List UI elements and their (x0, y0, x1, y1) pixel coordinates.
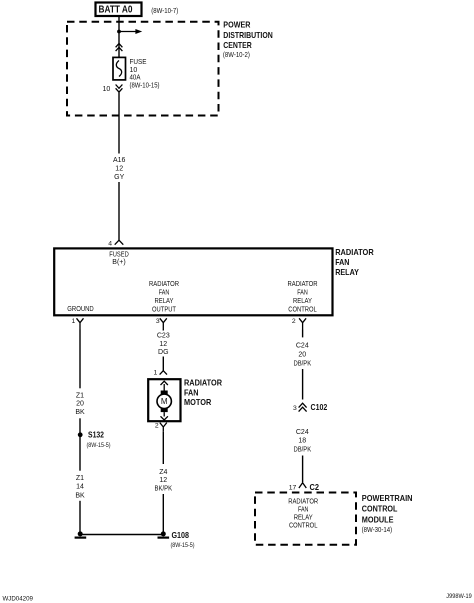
label RADIATOR FAN MOTOR (184, 378, 222, 407)
label RADIATOR FAN RELAY OUTPUT (149, 281, 179, 314)
svg-text:C24: C24 (296, 429, 309, 436)
svg-text:1: 1 (154, 370, 158, 377)
svg-text:Z1: Z1 (76, 392, 84, 399)
svg-text:DG: DG (158, 349, 169, 356)
svg-text:FAN: FAN (159, 289, 170, 296)
label C24 20 DB/PK (293, 343, 311, 368)
svg-text:BK: BK (75, 409, 85, 416)
motor M1 symbol (157, 381, 171, 420)
svg-text:(8W-10-7): (8W-10-7) (151, 8, 178, 15)
svg-text:CENTER: CENTER (223, 40, 252, 50)
svg-text:Z1: Z1 (76, 475, 84, 482)
wire motor to Z4 label (162, 431, 164, 464)
svg-text:FUSED: FUSED (109, 251, 129, 258)
wire ground branch upper (79, 330, 81, 389)
wire Z4 to ground G108 (162, 494, 164, 532)
svg-text:1: 1 (72, 318, 76, 325)
svg-text:BK: BK (75, 492, 85, 499)
label Z4 12 BK/PK (155, 469, 173, 493)
svg-text:RADIATOR: RADIATOR (288, 498, 318, 505)
label Z1 20 BK (75, 392, 85, 416)
label RADIATOR FAN RELAY (335, 247, 374, 277)
svg-text:2: 2 (292, 318, 296, 325)
powertrain control module dashed box (255, 493, 356, 545)
svg-text:FAN: FAN (298, 506, 309, 513)
svg-text:G108: G108 (172, 531, 190, 540)
connector chevrons out of PDC (116, 85, 123, 93)
svg-text:J998W-19: J998W-19 (446, 593, 472, 600)
svg-text:DISTRIBUTION: DISTRIBUTION (223, 30, 273, 40)
svg-text:12: 12 (159, 341, 167, 348)
svg-text:DB/PK: DB/PK (293, 361, 311, 368)
connector C2 pin 17 (289, 482, 319, 492)
arrow branch to other circuits (119, 29, 142, 34)
pin 2 motor connector (155, 423, 167, 432)
wire relay control to C24 label (302, 330, 304, 338)
ground symbol G108 (158, 531, 170, 538)
svg-text:M: M (161, 397, 168, 406)
svg-text:(8W-15-5): (8W-15-5) (87, 442, 111, 449)
wire A16 lower segment (118, 182, 120, 240)
wire C23 to motor (162, 357, 164, 371)
wire to ground G108 left (79, 501, 81, 532)
svg-text:2: 2 (155, 423, 159, 430)
svg-text:(8W-10-15): (8W-10-15) (130, 82, 160, 89)
svg-text:10: 10 (103, 86, 111, 93)
wire splice to Z1 14 label (79, 437, 81, 471)
wire C24 to PCM (302, 456, 304, 483)
svg-text:GROUND: GROUND (67, 306, 94, 313)
svg-text:3: 3 (156, 318, 160, 325)
svg-text:BK/PK: BK/PK (155, 485, 173, 492)
svg-text:RELAY: RELAY (294, 514, 313, 521)
svg-text:3: 3 (293, 405, 297, 412)
svg-text:POWERTRAIN: POWERTRAIN (362, 493, 413, 503)
svg-text:MODULE: MODULE (362, 515, 394, 525)
svg-text:10: 10 (130, 67, 138, 74)
svg-text:(8W-10-2): (8W-10-2) (223, 52, 250, 59)
label RADIATOR FAN RELAY CONTROL (288, 281, 318, 314)
battery feed box BATT A0 (96, 3, 142, 17)
pin 3 connector (156, 318, 167, 330)
radiator fan relay box (54, 248, 332, 315)
svg-text:RADIATOR: RADIATOR (288, 281, 318, 288)
svg-text:Z4: Z4 (159, 469, 167, 476)
connector chevrons into PDC (116, 44, 123, 52)
svg-text:GY: GY (114, 174, 124, 181)
wire relay output to C23 label (162, 330, 164, 331)
label C24 18 DB/PK (293, 429, 311, 453)
svg-text:BATT A0: BATT A0 (99, 5, 133, 16)
label G108 (8W-15-5) (171, 531, 195, 549)
svg-text:POWER: POWER (223, 20, 250, 30)
wire C24 to C102 (302, 369, 304, 400)
svg-text:CONTROL: CONTROL (288, 306, 317, 313)
label RADIATOR FAN RELAY CONTROL (PCM) (288, 498, 318, 529)
svg-text:DB/PK: DB/PK (293, 446, 311, 453)
svg-text:FAN: FAN (335, 257, 349, 267)
connector C102 (293, 402, 328, 412)
svg-text:FUSE: FUSE (130, 59, 147, 66)
svg-text:FAN: FAN (184, 387, 199, 397)
label FUSE 10 40A (8W-10-15) (130, 59, 160, 89)
svg-text:4: 4 (108, 241, 112, 248)
svg-text:C24: C24 (296, 343, 309, 350)
svg-text:S132: S132 (88, 430, 104, 439)
splice S132 (78, 430, 111, 449)
svg-text:CONTROL: CONTROL (362, 504, 398, 514)
svg-text:C2: C2 (310, 482, 320, 492)
svg-text:RADIATOR: RADIATOR (184, 378, 222, 388)
svg-text:RADIATOR: RADIATOR (149, 281, 179, 288)
svg-text:FAN: FAN (297, 289, 308, 296)
svg-text:C102: C102 (311, 402, 328, 412)
wire fuse to relay upper segment (118, 93, 120, 154)
svg-text:12: 12 (115, 166, 123, 173)
wire to splice (79, 418, 81, 432)
svg-text:C23: C23 (157, 332, 170, 339)
svg-text:RADIATOR: RADIATOR (335, 247, 374, 257)
label A16 12 GY (113, 157, 126, 181)
svg-text:WJD04209: WJD04209 (3, 596, 34, 603)
pin 1 motor connector (154, 370, 167, 377)
node junction dot (117, 30, 121, 34)
label POWER DISTRIBUTION CENTER (8W-10-2) (223, 20, 273, 59)
pin 2 connector (292, 318, 306, 330)
svg-text:(8W-15-5): (8W-15-5) (171, 542, 195, 549)
svg-text:14: 14 (76, 484, 84, 491)
svg-text:40A: 40A (130, 75, 141, 82)
svg-text:A16: A16 (113, 157, 126, 164)
power distribution center dashed box (67, 22, 219, 116)
svg-text:MOTOR: MOTOR (184, 397, 211, 407)
label FUSED B(+) (109, 251, 129, 266)
svg-text:12: 12 (159, 477, 167, 484)
wire BATT A0 down to fuse (118, 16, 120, 58)
svg-text:20: 20 (76, 401, 84, 408)
label Z1 14 BK (75, 475, 85, 499)
wire ground bus horizontal (80, 534, 163, 536)
label POWERTRAIN CONTROL MODULE (8W-30-14) (362, 493, 413, 534)
svg-text:OUTPUT: OUTPUT (152, 306, 177, 313)
svg-text:18: 18 (298, 438, 306, 445)
label C23 12 DG (157, 332, 170, 356)
radiator fan motor box (148, 379, 180, 421)
fuse 10 (40A) (113, 57, 126, 80)
svg-text:(8W-30-14): (8W-30-14) (362, 527, 393, 534)
svg-text:17: 17 (289, 484, 297, 491)
svg-text:RELAY: RELAY (293, 298, 312, 305)
pin 1 connector (72, 318, 84, 330)
svg-text:RELAY: RELAY (155, 298, 174, 305)
svg-text:CONTROL: CONTROL (289, 522, 318, 529)
ground symbol left (75, 531, 87, 538)
pin 4 connector (108, 240, 123, 248)
svg-text:B(+): B(+) (112, 259, 125, 266)
svg-text:20: 20 (298, 351, 306, 358)
svg-text:RELAY: RELAY (335, 267, 359, 277)
